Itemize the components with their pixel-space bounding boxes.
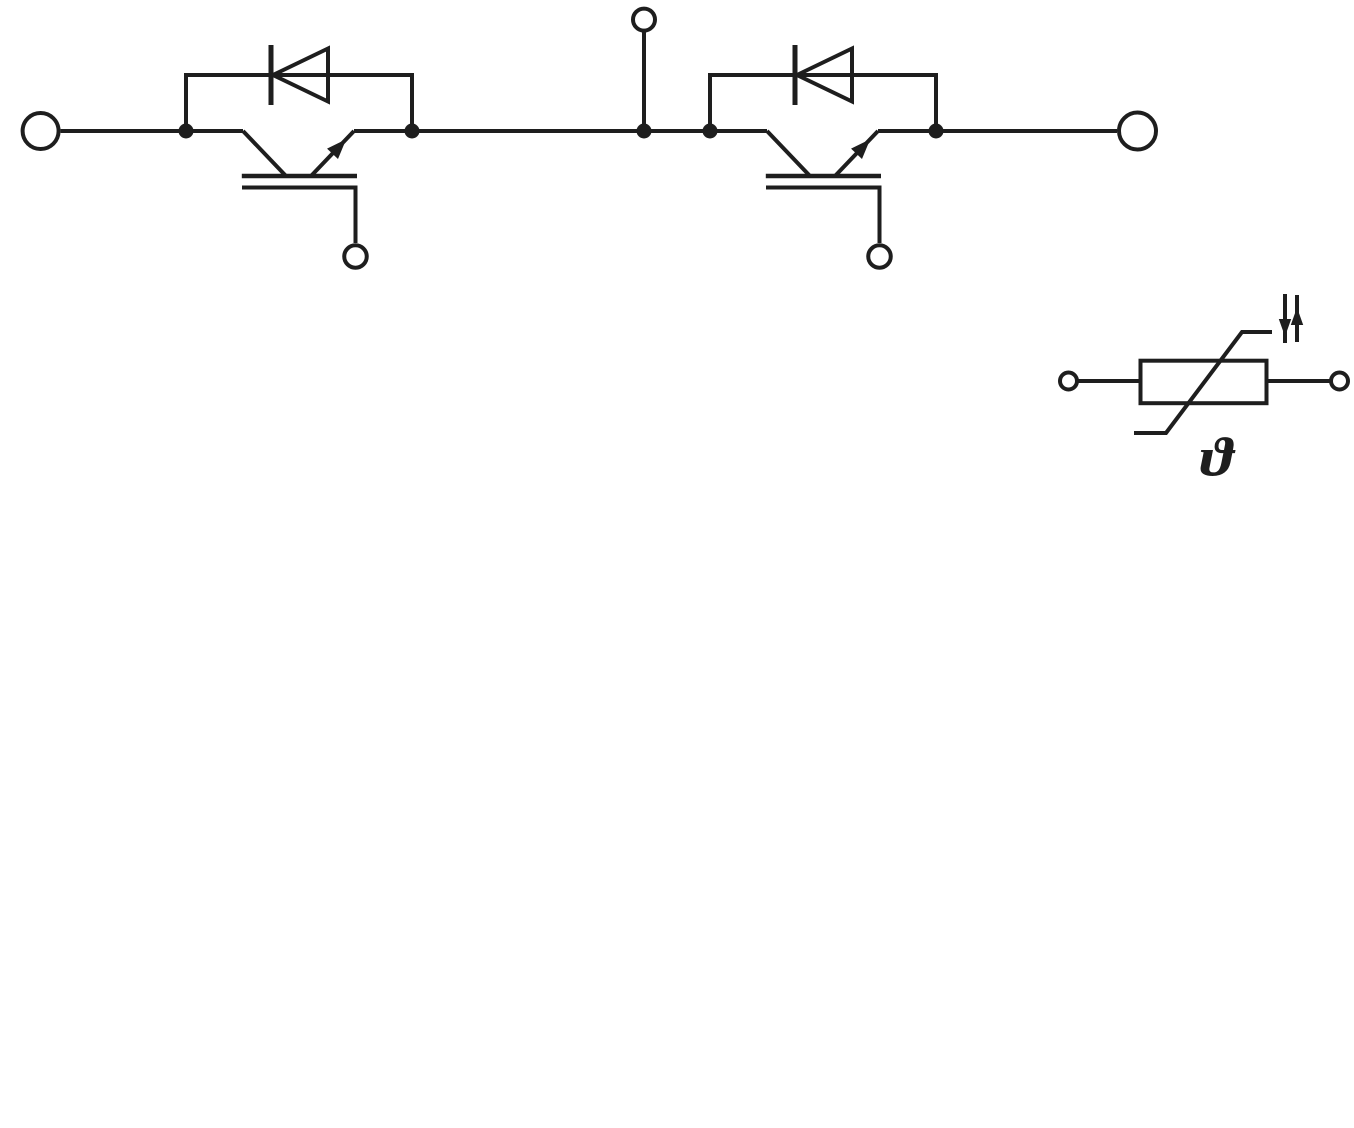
wire diode branch right <box>710 75 936 131</box>
wire <box>61 129 243 133</box>
terminal 3 (emitter E2) <box>1119 113 1156 150</box>
wire <box>1077 379 1140 383</box>
pin t1 <box>1060 373 1077 390</box>
pin t2 <box>1331 373 1348 390</box>
terminal 2 (center tap) <box>633 9 655 31</box>
thermistor R1 (NTC) <box>1060 332 1348 433</box>
terminal 1 (collector C1) <box>23 113 59 149</box>
node C junction <box>703 124 718 139</box>
resistor body <box>1141 361 1267 404</box>
node B junction <box>405 124 420 139</box>
transistor Q2 (IGBT) <box>766 131 881 243</box>
wire center stem <box>642 32 646 131</box>
wire <box>1267 379 1332 383</box>
node mid junction <box>637 124 652 139</box>
wire right <box>878 129 1117 133</box>
heat arrow up <box>1292 295 1303 342</box>
pin G2 gate terminal <box>868 245 891 268</box>
node A junction <box>179 124 194 139</box>
node D junction <box>929 124 944 139</box>
variable diagonal stroke <box>1134 332 1272 433</box>
wire mid <box>354 129 767 133</box>
wire diode branch left <box>186 75 412 131</box>
svg-text:ϑ: ϑ <box>1200 426 1236 487</box>
diode D1 <box>271 45 328 105</box>
diode D2 <box>795 45 852 105</box>
heat arrow down <box>1280 294 1291 343</box>
pin G1 gate terminal <box>344 245 367 268</box>
transistor Q1 (IGBT) <box>242 131 357 243</box>
